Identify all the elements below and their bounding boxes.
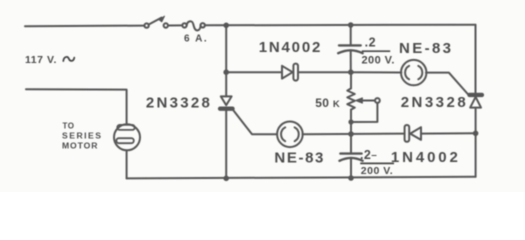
node pot bottom junction [348,119,353,124]
fraction bar top [362,50,390,52]
node bottom rail middle junction [348,175,354,181]
wire bottom lamp to diode D2 [303,133,405,136]
wire right rail upper (to right SCR anode bar) [475,25,477,94]
svg-text:TO: TO [63,122,75,131]
node lamp row right junction [473,131,479,137]
svg-text:50 K: 50 K [315,96,340,110]
wire left branch upper (top rail to diode wire) [225,25,227,72]
svg-text:117 V.: 117 V. [25,54,57,66]
node top-left junction [223,23,229,29]
node diode row left junction [223,69,229,75]
svg-text:1N4002: 1N4002 [391,149,461,166]
wire diode D2 to right rail [421,132,476,134]
svg-text:2N3328: 2N3328 [401,94,468,111]
wire bottom rail [127,177,476,179]
node lamp row middle junction [348,131,354,137]
svg-text:MOTOR: MOTOR [62,141,98,151]
node bottom rail left junction [223,176,229,182]
wire top lamp to right SCR gate [426,73,468,95]
wire diode to middle node [298,71,351,73]
svg-text:.2: .2 [365,35,377,49]
wire motor bottom lead [126,151,128,179]
svg-text:SERIES: SERIES [62,131,103,141]
wire switch to fuse [168,24,182,26]
svg-text:200 V.: 200 V. [362,55,395,67]
wire middle node to top lamp [351,71,402,73]
potentiometer R1 50K [347,72,380,122]
fraction bar bottom [360,162,394,164]
diode D1 1N4002 top (pointing right) [282,64,298,81]
svg-text:2N3328: 2N3328 [146,94,212,111]
wire top rail left segment [25,25,144,28]
capacitor C2 .2/200V bottom [340,154,363,178]
wire pot bottom to lamp row [350,122,352,134]
switch S1 (open SPST) [144,16,168,28]
wire middle branch to C2 [350,134,352,153]
wire right rail lower [475,108,477,177]
wire 117V lower feed [26,89,127,124]
label 117 V. ~ [25,54,74,66]
wire left branch (diode wire down to SCR anode) [225,72,227,96]
lamp I1 NE-83 top [401,60,426,85]
receptacle to series motor [114,124,140,150]
wire diode row left segment [226,71,281,73]
svg-text:6 A.: 6 A. [184,34,208,45]
capacitor C1 .2/200V top [338,45,362,72]
svg-text:NE-83: NE-83 [274,150,325,167]
svg-text:200 V.: 200 V. [361,165,393,177]
SCR Q2 2N3328 right [468,93,484,107]
wire gate of left SCR to lower lamp [234,111,277,135]
SCR Q1 2N3328 left [218,96,234,178]
svg-text:1N4002: 1N4002 [259,39,322,56]
wire middle branch top (rail to C1) [350,25,352,45]
diode D2 1N4002 bottom (pointing left) [405,125,421,142]
label TO SERIES MOTOR [62,122,103,151]
node top-middle junction [348,22,354,28]
fuse 6 A. [182,21,205,30]
svg-text:NE-83: NE-83 [399,40,453,57]
svg-text:.2–: .2– [360,148,377,162]
wire top rail to right corner [205,24,476,27]
lamp I2 NE-83 bottom [277,122,303,148]
node diode row middle junction [348,69,354,75]
